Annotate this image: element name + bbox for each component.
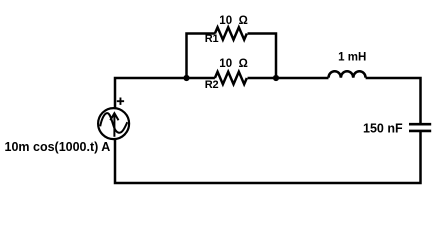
svg-text:R2: R2 — [205, 79, 219, 91]
inductor 1 mH — [329, 71, 366, 78]
wire: R1 right to branch right vertical — [248, 34, 277, 79]
wire: R1 branch left vertical and top to R1 — [187, 34, 215, 79]
svg-text:1 mH: 1 mH — [338, 51, 366, 63]
current source I1: circle — [98, 108, 129, 139]
current source I1: sine wave — [100, 113, 127, 133]
resistor R1 — [215, 27, 247, 39]
capacitor 150 nF plates — [409, 124, 431, 131]
svg-text:R1: R1 — [205, 33, 219, 45]
svg-text:10 Ω: 10 Ω — [219, 58, 248, 70]
wire: inductor to top-right corner down to capacitor — [366, 78, 421, 124]
resistor R2 — [215, 72, 247, 84]
svg-text:10m cos(1000.t) A: 10m cos(1000.t) A — [5, 140, 111, 154]
wire: left vertical (top) and top-left horizontal to R2 — [115, 78, 215, 108]
current source I1: arrow up — [110, 113, 118, 137]
node: junction left of R1/R2 parallel — [183, 75, 189, 81]
svg-text:150 nF: 150 nF — [363, 121, 403, 135]
svg-text:10 Ω: 10 Ω — [219, 15, 248, 27]
wire: capacitor to bottom-right corner, bottom wire, left vertical (bottom) — [115, 131, 421, 183]
wire: R2 right to inductor — [248, 77, 329, 80]
node: junction right of R1/R2 parallel — [273, 75, 279, 81]
polarity plus sign — [117, 98, 124, 105]
